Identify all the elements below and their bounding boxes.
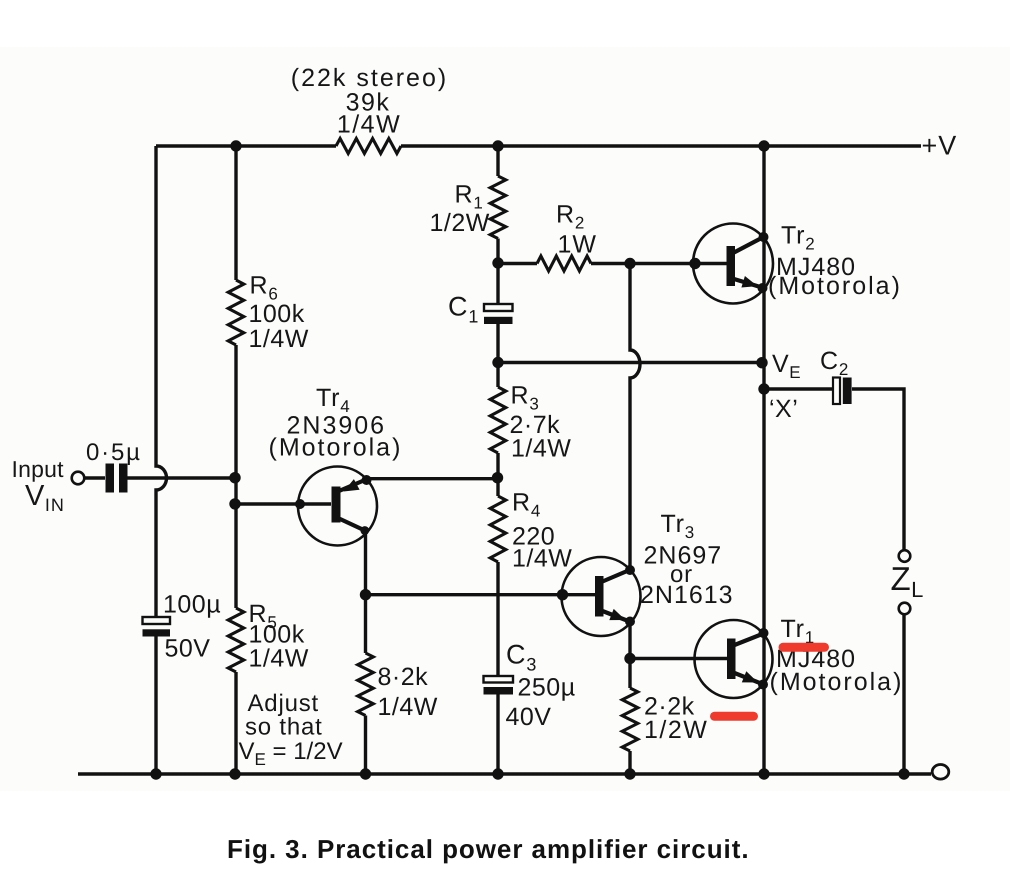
junction Tr3 emitter / Tr1 base	[624, 653, 635, 664]
transistor Tr2 MJ480 (Motorola)	[693, 224, 773, 304]
svg-text:(Motorola): (Motorola)	[269, 434, 403, 462]
junction R2 / Tr3 collector line	[624, 258, 635, 269]
wire R2 left lead	[498, 262, 537, 265]
wire ZL to ground rail	[902, 615, 905, 775]
svg-text:8·2k: 8·2k	[378, 663, 429, 691]
wire 2.2k to ground	[628, 751, 631, 774]
svg-text:1/2W: 1/2W	[430, 209, 490, 237]
resistor R2 1W	[537, 256, 591, 271]
svg-text:100µ: 100µ	[163, 591, 221, 619]
wire Tr3 emitter to 2.2k	[628, 622, 631, 689]
junction VE / C2 branch	[758, 383, 769, 394]
wire left feedback column with crossover hop	[156, 146, 167, 617]
junction R1 / R2	[492, 257, 503, 268]
junction top rail / divider	[230, 140, 241, 151]
transistor Tr1 MJ480 (Motorola)	[695, 620, 773, 698]
resistor R4 220 1/4W	[490, 496, 506, 562]
wire R1 to C1	[496, 239, 499, 305]
svg-text:(Motorola): (Motorola)	[770, 668, 904, 696]
wire 0V bottom rail	[78, 772, 931, 775]
wire R2 to Tr2 base	[591, 262, 697, 265]
node VE	[756, 357, 767, 368]
svg-text:250µ: 250µ	[518, 674, 576, 702]
wire input to capacitor	[85, 476, 106, 479]
svg-text:VE = 1/2V: VE = 1/2V	[239, 738, 343, 769]
junction Tr2 emitter exit	[758, 283, 768, 293]
wire +V top rail	[156, 144, 336, 147]
junction rail/output column	[758, 768, 769, 779]
resistor R5 100k 1/4W	[228, 608, 244, 672]
junction rail/8.2k	[360, 768, 371, 779]
svg-text:+V: +V	[922, 131, 958, 161]
annotation red underline Tr1	[783, 643, 825, 652]
annotation red dash	[715, 712, 754, 721]
wire C1 to VE	[498, 361, 762, 364]
junction rail/feedback	[150, 768, 161, 779]
svg-text:1/4W: 1/4W	[249, 325, 309, 353]
node 0V terminal	[932, 765, 949, 780]
wire Tr3 emitter to Tr1 base	[630, 657, 697, 660]
junction Tr1 emitter exit	[758, 680, 768, 690]
node input terminal	[72, 472, 85, 485]
junction Tr4 base edge	[295, 499, 305, 509]
capacitor 100u 50V	[143, 617, 171, 624]
svg-text:1/4W: 1/4W	[337, 111, 401, 139]
svg-text:1W: 1W	[558, 231, 598, 259]
junction C1 / VE wire	[492, 357, 503, 368]
svg-text:‘X’: ‘X’	[769, 395, 798, 423]
junction rail/C3	[492, 768, 503, 779]
junction Tr1 collector exit	[759, 628, 769, 638]
svg-text:2N1613: 2N1613	[640, 581, 734, 609]
wire C2 to ZL	[852, 389, 904, 550]
wire Tr3 collector column with crossover hop	[630, 264, 640, 571]
svg-text:so that: so that	[245, 714, 323, 741]
junction Tr2 collector exit	[759, 232, 769, 242]
svg-text:(Motorola): (Motorola)	[768, 272, 902, 300]
resistor 39k (22k stereo) 1/4W	[336, 139, 401, 154]
wire Tr2/Tr1 collector column	[762, 146, 765, 774]
wire capacitor to divider node	[128, 476, 234, 479]
svg-text:1/2W: 1/2W	[644, 716, 708, 744]
junction Tr4 emitter exit	[362, 475, 372, 485]
transistor Tr4 2N3906 (Motorola)	[298, 467, 377, 546]
svg-text:1/4W: 1/4W	[511, 435, 571, 463]
capacitor C3 250u 40V	[484, 676, 514, 683]
junction input / divider	[229, 472, 240, 483]
resistor 2.2k 1/2W	[622, 688, 638, 751]
capacitor C1	[484, 304, 513, 311]
wire C1 to R3	[496, 324, 499, 387]
svg-text:Input: Input	[12, 456, 65, 482]
capacitor 0.5u	[106, 464, 115, 493]
wire Tr4 emitter to R3/R4 node	[367, 477, 499, 480]
junction Tr2 base	[689, 258, 700, 269]
junction Tr3 emitter exit	[625, 617, 635, 627]
transistor Tr3 2N697 or 2N1613	[562, 557, 641, 636]
svg-text:0·5µ: 0·5µ	[86, 439, 142, 466]
wire bias divider column top	[234, 146, 237, 280]
svg-text:1/4W: 1/4W	[249, 645, 309, 673]
junction divider / Tr4 base	[229, 498, 240, 509]
wire Tr4 base feed	[236, 502, 300, 505]
wire bias divider column bottom	[234, 672, 237, 774]
resistor 8.2k 1/4W	[358, 653, 374, 716]
svg-text:100k: 100k	[249, 300, 305, 328]
wire Tr4 collector to Tr3 base	[366, 593, 564, 596]
junction Tr3 base edge	[557, 589, 568, 600]
junction R3 / Tr4 emitter wire	[492, 472, 503, 483]
junction rail/divider	[229, 768, 240, 779]
junction Tr3 collector exit	[625, 565, 635, 575]
junction rail/2.2k	[624, 768, 635, 779]
wire R4 to C3	[496, 562, 499, 676]
junction Tr4 collector exit	[360, 526, 369, 535]
svg-text:Fig. 3. Practical power amplif: Fig. 3. Practical power amplifier circui…	[227, 834, 750, 864]
wire R1 top	[496, 146, 499, 176]
resistor R6 100k 1/4W	[228, 280, 244, 345]
svg-text:50V: 50V	[165, 635, 211, 663]
capacitor C2	[833, 378, 840, 405]
junction top rail / R1	[492, 140, 503, 151]
resistor R3 2.7k 1/4W	[490, 387, 506, 453]
wire bias divider column mid	[234, 345, 237, 608]
junction rail/ZL	[898, 768, 909, 779]
junction top rail / Tr2 collector line	[758, 140, 769, 151]
resistor R1 1/2W	[490, 176, 506, 239]
wire 8.2k to ground	[364, 716, 367, 775]
wire VE to C2	[764, 387, 833, 390]
junction Tr4 collector / Tr3 base wire	[360, 589, 371, 600]
svg-text:40V: 40V	[506, 703, 552, 731]
wire Tr4 collector column to ground	[364, 595, 367, 653]
svg-text:1/4W: 1/4W	[378, 693, 438, 721]
wire C3 to ground rail	[496, 695, 499, 775]
load ZL terminals	[899, 550, 911, 562]
svg-text:1/4W: 1/4W	[512, 545, 572, 573]
wire R3 to R4	[496, 453, 499, 496]
